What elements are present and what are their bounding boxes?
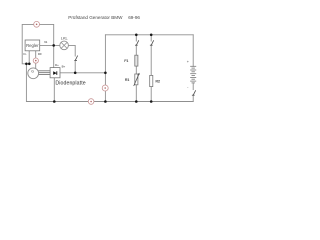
svg-text:Prüfstand Generator BMW: Prüfstand Generator BMW <box>68 15 123 20</box>
svg-text:Regler: Regler <box>26 43 39 48</box>
svg-text:61: 61 <box>44 40 48 44</box>
svg-text:Diodenplatte: Diodenplatte <box>55 81 85 87</box>
svg-text:LKL: LKL <box>61 35 69 40</box>
svg-text:DF: DF <box>38 52 42 56</box>
svg-text:F1: F1 <box>124 59 128 63</box>
svg-text:69-96: 69-96 <box>128 15 140 20</box>
svg-text:D-: D- <box>24 52 27 56</box>
svg-text:B+: B+ <box>62 65 66 69</box>
svg-text:R1: R1 <box>125 78 130 82</box>
svg-text:G: G <box>31 70 34 74</box>
svg-text:R2: R2 <box>156 80 161 84</box>
svg-text:D+: D+ <box>55 63 59 67</box>
